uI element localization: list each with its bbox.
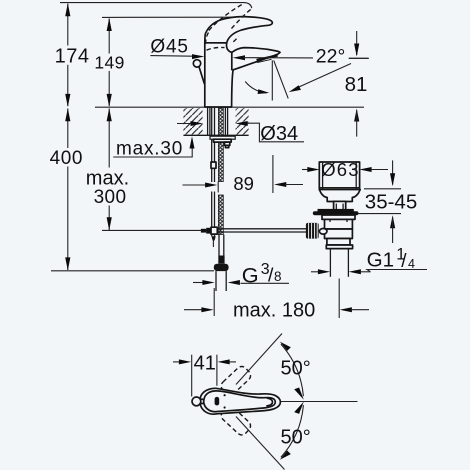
lever base seam line [205,42,226,44]
svg-text:max.: max. [86,167,129,189]
svg-text:174: 174 [55,46,90,68]
dashed rotated lever upper (top view) [219,364,253,397]
svg-text:G1: G1 [367,249,394,272]
top view lever inner outline [204,391,276,412]
lever hole mark [215,397,220,406]
faucet body (side view) [205,17,280,107]
pull rod clamp [211,162,216,168]
bottom reference line of 400 [51,270,214,272]
drain taper [319,190,360,202]
drain body lower step [327,239,350,246]
pull rod clevis block [211,227,217,234]
pull rod knob (side view) [193,60,200,67]
dimension max. 300 [86,108,129,230]
ball joint [319,229,327,235]
svg-text:Ø45: Ø45 [150,36,188,57]
reference line A (raised lever top) [60,3,252,9]
22° stream reference vertical line [271,60,273,100]
shank step block [225,142,230,145]
max300 bottom reference line (linkage level) [102,229,212,231]
dimension 89 [183,155,304,194]
lever dots [224,394,226,396]
hose end fitting [218,256,224,264]
supply pipe below braid [218,235,220,256]
horizontal linkage rod to drain [217,228,306,230]
50° lower ray [236,417,285,470]
top view centerline [281,401,358,403]
pull rod upper (side view, slanted) [199,67,204,84]
50° upper arc with arrowheads [281,344,304,396]
svg-text:41: 41 [194,353,216,375]
tailpipe [329,249,331,277]
50° lower arc with arrowheads [281,405,304,457]
body-spout junction edge [231,52,233,69]
svg-text:400: 400 [50,148,84,169]
drain body band [325,229,353,239]
top view body + lever outer outline [200,388,281,414]
dimension Ø34 arrows [177,121,304,145]
faucet shank outer tube lines [207,108,209,136]
svg-text:max.30: max.30 [116,139,183,160]
svg-text:35-45: 35-45 [365,191,417,214]
svg-text:300: 300 [94,187,127,208]
svg-text:max. 180: max. 180 [233,300,315,322]
22° arc arrow left [245,82,266,93]
dimension Ø63 [302,159,388,180]
knurled rod nut [306,223,319,239]
drain body upper [325,219,353,229]
tailpipe centerline extension [338,279,340,319]
drain flange (dark) [318,209,354,212]
svg-text:81: 81 [345,73,368,96]
G3/8 connector nut [214,264,229,271]
top view knob [192,397,201,406]
svg-text:4: 4 [408,257,415,271]
svg-text:8: 8 [274,269,282,284]
dimension max. 180 [184,300,369,322]
dimension G 3/8 [193,261,289,288]
clevis screw [201,229,206,233]
dashed rotated lever lower (top view) [219,404,253,437]
flange collar [322,215,355,219]
G3/8 thread end [215,271,217,291]
dimension max.30 leader [113,136,194,159]
svg-text:Ø63: Ø63 [321,159,360,180]
dimension 35-45 [358,160,418,243]
50° upper ray [236,334,282,385]
dimension 400 [50,108,84,270]
countertop bottom line [183,134,248,136]
svg-text:22°: 22° [316,45,346,67]
svg-text:50°: 50° [281,426,311,448]
countertop hatch left block [183,108,202,135]
countertop surface line [95,106,364,108]
svg-text:/: / [401,251,407,272]
braided supply hose [218,108,223,182]
drain top cylinder [319,162,359,190]
dimension 174 [55,3,90,107]
dimension Ø45 [150,36,313,60]
max180 left extension line [213,288,215,316]
dimension 41 [173,353,236,397]
pull rod lower tip [212,236,216,240]
22° stream line [274,60,289,98]
reference line B (lever top) [102,16,234,18]
svg-text:Ø34: Ø34 [260,123,298,145]
pop-up pull rod (vertical) [211,108,213,182]
plug lift housing [334,201,346,209]
svg-text:89: 89 [233,173,254,194]
svg-text:50°: 50° [281,357,311,379]
tailpipe lip [326,245,352,249]
aerator (mousseur) [256,54,278,61]
dimension 81 [345,31,369,137]
dimension G1 1/4 [311,246,427,275]
aerator level construction line (Ø45 / 22 / 81 reference) [349,57,369,59]
countertop hatch right block [236,108,249,135]
svg-text:149: 149 [94,53,124,73]
lever tip inner cap arc [267,398,273,406]
knob neck (top view) [201,398,204,400]
dashed raised lever [209,3,244,30]
mounting washer under countertop [210,136,235,139]
dimension 149 [94,18,124,107]
